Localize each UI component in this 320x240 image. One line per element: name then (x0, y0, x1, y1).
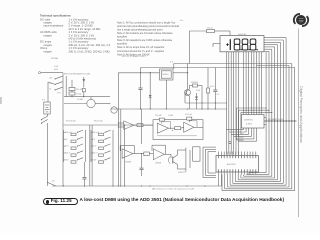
svg-text:±5%: ±5% (54, 69, 58, 71)
label R3 (77, 99, 83, 101)
svg-text:Note 2: All resistors are 1/4: Note 2: All resistors are 1/4 watt unles… (117, 31, 173, 35)
label rail (170, 61, 174, 63)
switch S4 (47, 182, 56, 186)
svg-text:specified: specified (117, 42, 128, 46)
frame integrator block (153, 120, 203, 140)
wire Vcc feed (189, 31, 230, 64)
wire x187 drop (187, 64, 189, 90)
switch bank SW3 (91, 130, 113, 163)
page side rule (298, 29, 300, 218)
publisher logo (294, 14, 308, 26)
transistor Q2 (185, 89, 191, 109)
display digit 8 (1) (234, 39, 242, 50)
svg-text:PROBE: PROBE (51, 58, 59, 60)
transistor Q1 (FET probe) (64, 97, 111, 108)
switch S1b (55, 82, 63, 85)
svg-text:200 Ω, 2 kΩ, 20 kΩ, 200 kΩ, 2: 200 Ω, 2 kΩ, 20 kΩ, 200 kΩ, 2 MΩ (69, 49, 110, 53)
label under schematic (152, 188, 195, 191)
labels subcircuit (191, 82, 220, 96)
label Vcc (180, 20, 183, 22)
svg-text:use a single ground/analog gro: use a single ground/analog ground point (117, 28, 163, 32)
diode D3 (195, 93, 198, 109)
node probe input (38, 72, 40, 74)
svg-text:R6 50 kΩ: R6 50 kΩ (94, 121, 103, 123)
wire x150 drop (149, 73, 151, 109)
svg-text:100 kΩ: 100 kΩ (76, 89, 83, 91)
resistor R8 (189, 84, 202, 109)
battery B1 (44, 102, 50, 114)
resistor R9 (207, 30, 215, 33)
bus: display segment lines (264, 38, 286, 186)
wires integrator (157, 120, 203, 136)
labels row2 (125, 162, 186, 175)
wire V- short rail (257, 65, 290, 67)
wire Vcc rail (174, 64, 292, 70)
svg-text:9 V: 9 V (42, 100, 46, 102)
capacitor C2 (139, 68, 143, 110)
resistor R2 (69, 92, 75, 95)
bus outer wrap lines (289, 64, 295, 191)
svg-text:Note 1: All Vᴄᴄ connections sh: Note 1: All Vᴄᴄ connections should use a… (117, 20, 176, 24)
wire to regulator (118, 72, 159, 73)
svg-text:0.1: 0.1 (217, 94, 221, 96)
wire regulator gnd (166, 80, 167, 110)
svg-text:connected across the V+ and V−: connected across the V+ and V− supplies (117, 49, 165, 53)
wire mid rail x142 (141, 109, 143, 144)
resistor R20 (137, 124, 143, 127)
driver IC DS8874N (242, 115, 265, 129)
labels above integrator (155, 114, 193, 117)
svg-text:Ω: Ω (50, 88, 52, 90)
caption figure number (51, 198, 72, 203)
display digit 8 (3) (250, 39, 258, 50)
wire left rail pair (65, 76, 67, 97)
wire switch common (48, 82, 55, 102)
op-amp U3 (184, 122, 194, 132)
segment lines display to driver (244, 52, 262, 115)
ADD3501 top pins (219, 152, 256, 159)
labels range switch (50, 76, 53, 90)
label S4 (52, 181, 55, 183)
wire left rail (62, 73, 64, 186)
wire mid rail x125 (124, 125, 126, 186)
wire U1 io (118, 123, 153, 128)
wire U5 out (164, 154, 171, 158)
svg-text:DS8874N: DS8874N (244, 119, 253, 121)
caption pill icon (46, 200, 50, 204)
label display (238, 33, 247, 36)
switch S1a (55, 76, 63, 79)
capacitor C7 (228, 142, 231, 144)
notes block (117, 20, 179, 56)
svg-text:100 kΩ: 100 kΩ (155, 115, 162, 117)
svg-text:10 MΩ: 10 MΩ (77, 99, 83, 101)
svg-text:1 MΩ: 1 MΩ (168, 115, 173, 117)
schematic labels top-left (51, 55, 146, 75)
svg-text:10 kΩ: 10 kΩ (76, 94, 82, 96)
svg-text:Vᴄᴄ: Vᴄᴄ (180, 20, 183, 22)
svg-text:INPUT ATTENUATOR 10 MΩ: INPUT ATTENUATOR 10 MΩ (64, 72, 91, 75)
svg-text:0.47 µF: 0.47 µF (185, 114, 193, 116)
bank header labels (66, 121, 103, 123)
wire loop frames (203, 147, 216, 178)
svg-text:R5 500 kΩ: R5 500 kΩ (66, 121, 76, 123)
switch S1c (55, 87, 63, 90)
wire R16 U5 (149, 153, 153, 155)
capacitor C5 (187, 117, 192, 120)
capacitor C9 (83, 175, 87, 186)
wire U4 out (133, 153, 144, 154)
wire y97 (64, 96, 110, 97)
svg-text:input impedance: input impedance (44, 24, 64, 28)
wire V+ rail (141, 67, 295, 69)
svg-text:2N4355: 2N4355 (191, 82, 199, 84)
op-amp U2 (157, 123, 168, 133)
svg-text:1 kΩ: 1 kΩ (54, 66, 59, 68)
wire mid rail x118 (117, 73, 119, 186)
svg-text:8-SEG: 8-SEG (246, 124, 252, 126)
bus line innermost (265, 52, 267, 172)
svg-text:Note 4: All op amps have 0.1 µ: Note 4: All op amps have 0.1 µF capacito… (117, 45, 164, 49)
wire regulator out (173, 72, 188, 73)
switch bank SW2 (64, 130, 86, 163)
label battery (42, 100, 46, 102)
svg-text:specified: specified (117, 35, 128, 39)
feedback loop U4 (120, 146, 134, 154)
capacitor C3 (213, 68, 217, 110)
svg-text:150 Ω: 150 Ω (207, 27, 213, 29)
svg-text:LM340: LM340 (162, 74, 169, 76)
wire R1R2 (72, 80, 73, 97)
bus bottom wrap (222, 173, 295, 191)
wire DIP gnd drops (219, 175, 222, 187)
svg-text:AC: AC (50, 76, 53, 79)
label R1 (76, 89, 83, 96)
op-amp U1 (124, 121, 134, 130)
svg-text:(All resistances in ohms, all: (All resistances in ohms, all capacitanc… (152, 188, 195, 191)
resistor R10 (207, 68, 210, 110)
wire S2 down (47, 123, 49, 186)
wire bank top (64, 125, 154, 126)
diode D1 (82, 77, 85, 88)
svg-text:ranges: ranges (44, 33, 53, 37)
main IC ADD3501 (216, 156, 259, 173)
capacitor C6 (140, 154, 144, 177)
ADD3501 bottom pins (219, 169, 256, 174)
caption text (80, 198, 285, 203)
wire analog bus y109 (111, 108, 228, 109)
resistor R1 (69, 88, 75, 91)
label Q1 (57, 93, 62, 95)
wire bank rails (90, 125, 92, 186)
label R9 (207, 27, 213, 29)
svg-text:2N2222: 2N2222 (178, 172, 186, 174)
spec table (40, 17, 110, 53)
driver right stubs (264, 118, 266, 125)
svg-text:5 V: 5 V (170, 61, 174, 63)
digit drive channel wires (226, 52, 238, 155)
svg-text:ADD3501: ADD3501 (227, 163, 237, 166)
svg-text:6.8 k: 6.8 k (210, 86, 214, 88)
wire mid rail x121 (120, 109, 122, 186)
op-amp U4 (122, 149, 133, 159)
op-amp U5 (153, 149, 164, 160)
svg-text:200 V: 200 V (65, 153, 71, 155)
resistor network block (193, 147, 200, 161)
transistor Q4 (168, 150, 177, 169)
DS8874 bottom pins (226, 128, 256, 141)
svg-text:LM308: LM308 (125, 162, 132, 164)
svg-text:Technical specifications: Technical specifications (40, 13, 71, 17)
wire y103 (185, 93, 227, 104)
svg-text:TP1: TP1 (57, 93, 62, 95)
display digit 8 (2) (242, 39, 250, 50)
feedback loop U5 (152, 145, 166, 154)
wire loop frames row2 (178, 148, 191, 172)
switch S2 (41, 114, 48, 124)
voltage regulator U7 LM340 (160, 69, 174, 80)
resistor R3 (82, 89, 85, 97)
wire ground bus (52, 185, 222, 186)
svg-text:Digital Principles and Applica: Digital Principles and Applications (299, 86, 303, 143)
svg-text:Note 3: All capacitors are ±10: Note 3: All capacitors are ±10% unless o… (117, 38, 173, 42)
wire loops around driver (237, 108, 273, 141)
wire bank drops (85, 162, 114, 187)
svg-text:LM308: LM308 (155, 163, 162, 165)
resistor R11 (159, 118, 164, 121)
display NSB5388 (220, 36, 264, 52)
transistor Q3 (111, 107, 117, 113)
wire probe to rail (41, 72, 63, 74)
diode D2 (149, 95, 152, 98)
svg-text:S4: S4 (52, 181, 55, 183)
wire segment bus junctions (264, 119, 297, 121)
resistor R15 (175, 127, 181, 130)
svg-text:200 V: 200 V (92, 153, 98, 155)
svg-text:ranges: ranges (44, 49, 53, 53)
svg-text:point and all ground/analog gr: point and all ground/analog ground conne… (117, 24, 179, 28)
wire display left pin (213, 43, 220, 47)
scan artifact (0, 97, 2, 104)
resistor R16 (144, 152, 150, 156)
caption pill (43, 198, 78, 205)
svg-text:1 kΩ: 1 kΩ (196, 90, 201, 92)
svg-text:SET R5 TO READ 1.999 V: SET R5 TO READ 1.999 V (122, 55, 146, 58)
display digit half-1 (226, 39, 230, 50)
